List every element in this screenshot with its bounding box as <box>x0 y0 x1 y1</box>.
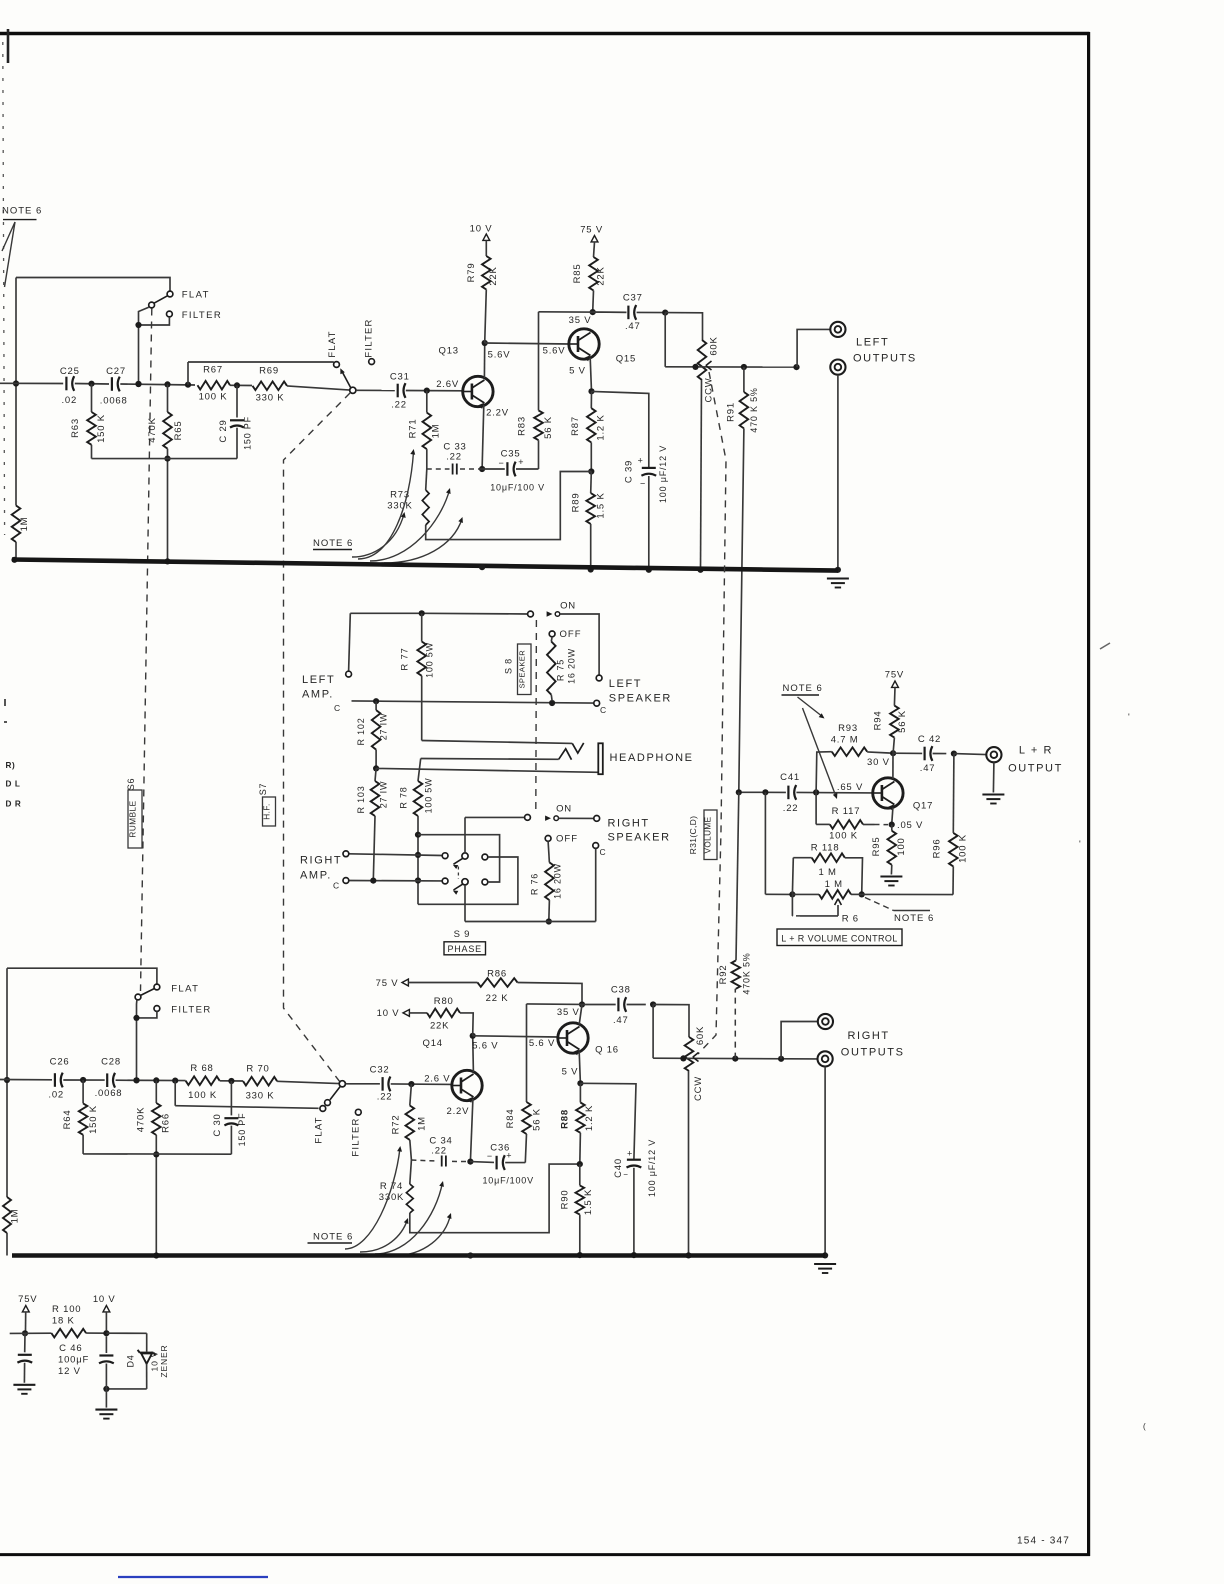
svg-text:60K: 60K <box>709 336 720 355</box>
svg-text:470K 5%: 470K 5% <box>742 952 752 994</box>
svg-text:R 70: R 70 <box>246 1064 269 1075</box>
svg-text:.65 V: .65 V <box>837 782 863 793</box>
svg-text:75V: 75V <box>885 670 904 681</box>
svg-text:R91: R91 <box>726 402 737 422</box>
svg-text:RIGHT: RIGHT <box>300 855 342 867</box>
svg-text:C37: C37 <box>623 293 643 304</box>
svg-text:100 K: 100 K <box>958 834 969 863</box>
svg-text:L + R VOLUME CONTROL: L + R VOLUME CONTROL <box>781 933 897 943</box>
svg-text:22 K: 22 K <box>486 993 509 1004</box>
svg-text:R93: R93 <box>838 723 858 734</box>
svg-text:R83: R83 <box>517 416 528 436</box>
svg-text:Q 16: Q 16 <box>595 1045 619 1056</box>
svg-text:OFF: OFF <box>556 834 578 845</box>
svg-text:FILTER: FILTER <box>350 1117 361 1156</box>
svg-text:−: − <box>498 458 504 468</box>
svg-text:.0068: .0068 <box>100 395 128 406</box>
svg-text:100: 100 <box>896 837 907 855</box>
svg-text:.0068: .0068 <box>95 1088 123 1099</box>
svg-text:.22: .22 <box>446 452 462 463</box>
svg-text:100μF: 100μF <box>58 1355 89 1366</box>
svg-text:1M: 1M <box>10 1209 21 1224</box>
svg-text:1M: 1M <box>19 517 30 532</box>
svg-text:330K: 330K <box>379 1192 404 1203</box>
svg-text:R72: R72 <box>391 1115 402 1135</box>
svg-text:R80: R80 <box>434 996 454 1007</box>
svg-text:470K: 470K <box>147 417 158 442</box>
svg-text:R94: R94 <box>873 711 884 731</box>
svg-text:1.2 K: 1.2 K <box>596 414 607 440</box>
svg-text:R96: R96 <box>932 839 943 859</box>
svg-text:RUMBLE: RUMBLE <box>129 800 138 837</box>
svg-text:AMP.: AMP. <box>300 870 332 882</box>
svg-text:R 117: R 117 <box>832 806 861 817</box>
svg-text:PHASE: PHASE <box>447 944 482 954</box>
svg-text:C27: C27 <box>106 366 126 377</box>
svg-text:35 V: 35 V <box>569 315 592 326</box>
svg-text:10 V: 10 V <box>93 1294 116 1305</box>
svg-text:OUTPUTS: OUTPUTS <box>853 353 917 365</box>
svg-text:60K: 60K <box>695 1026 706 1045</box>
svg-text:FILTER: FILTER <box>364 318 375 357</box>
svg-text:R 100: R 100 <box>52 1304 81 1315</box>
svg-text:NOTE 6: NOTE 6 <box>313 1232 353 1243</box>
svg-text:D L: D L <box>6 780 21 789</box>
svg-text:C41: C41 <box>780 772 800 783</box>
svg-text:C 39: C 39 <box>624 460 635 483</box>
svg-text:100 K: 100 K <box>829 831 858 842</box>
svg-text:C: C <box>600 847 607 857</box>
svg-text:−: − <box>623 1170 628 1179</box>
svg-text:Q17: Q17 <box>913 801 933 812</box>
svg-text:S6: S6 <box>126 778 136 791</box>
svg-text:5 V: 5 V <box>569 366 586 377</box>
svg-text:10 V: 10 V <box>149 1351 159 1372</box>
svg-text:330K: 330K <box>387 501 412 512</box>
svg-text:2.2V: 2.2V <box>447 1106 470 1117</box>
svg-text:SPEAKER: SPEAKER <box>518 650 527 689</box>
svg-text:1.5 K: 1.5 K <box>596 492 607 518</box>
svg-text:CCW: CCW <box>693 1076 704 1101</box>
svg-text:2.6V: 2.6V <box>436 379 459 390</box>
svg-text:2.2V: 2.2V <box>486 408 509 419</box>
svg-text:R 118: R 118 <box>811 843 840 854</box>
svg-text:NOTE 6: NOTE 6 <box>894 913 934 924</box>
svg-text:.47: .47 <box>920 763 936 774</box>
svg-text:75 V: 75 V <box>580 225 603 236</box>
svg-text:NOTE 6: NOTE 6 <box>783 683 823 694</box>
svg-text:AMP.: AMP. <box>302 689 334 701</box>
svg-text:150 PF: 150 PF <box>237 1113 247 1147</box>
svg-text:(: ( <box>1143 1422 1146 1431</box>
svg-text:1 M: 1 M <box>825 879 843 890</box>
svg-text:S 8: S 8 <box>504 658 514 674</box>
svg-text:R67: R67 <box>203 365 223 376</box>
svg-text:NOTE 6: NOTE 6 <box>313 538 353 549</box>
svg-text:35 V: 35 V <box>557 1007 580 1018</box>
svg-text:C: C <box>600 705 607 715</box>
svg-text:RIGHT: RIGHT <box>848 1030 890 1042</box>
svg-text:100 K: 100 K <box>188 1090 217 1101</box>
svg-text:D R: D R <box>6 800 22 809</box>
svg-text:5.6V: 5.6V <box>488 350 511 361</box>
svg-text:R 103: R 103 <box>356 785 366 813</box>
svg-text:FLAT: FLAT <box>171 984 199 995</box>
svg-text:.22: .22 <box>783 803 799 814</box>
svg-text:C32: C32 <box>370 1065 390 1076</box>
svg-text:5.6 V: 5.6 V <box>529 1038 555 1049</box>
svg-text:FLAT: FLAT <box>327 330 338 357</box>
svg-text:+: + <box>638 456 644 466</box>
svg-text:ON: ON <box>560 601 576 612</box>
svg-text:R84: R84 <box>505 1109 516 1129</box>
svg-text:56 K: 56 K <box>543 416 554 439</box>
svg-text:C 46: C 46 <box>59 1343 82 1354</box>
svg-text:10μF/100 V: 10μF/100 V <box>490 483 545 493</box>
svg-text:R66: R66 <box>161 1113 172 1133</box>
svg-text:R90: R90 <box>560 1190 571 1210</box>
svg-text:VOLUME: VOLUME <box>704 816 713 853</box>
svg-text:1.5 K: 1.5 K <box>583 1189 594 1215</box>
svg-text:C: C <box>333 881 340 891</box>
svg-text:.22: .22 <box>377 1092 393 1103</box>
svg-text:150 K: 150 K <box>96 414 107 443</box>
svg-text:Q13: Q13 <box>439 346 459 357</box>
svg-text:.47: .47 <box>625 321 641 332</box>
svg-text:150 PF: 150 PF <box>243 416 253 450</box>
svg-text:100 K: 100 K <box>199 392 228 403</box>
svg-text:Q14: Q14 <box>423 1038 443 1049</box>
svg-text:R 6: R 6 <box>842 914 859 925</box>
svg-text:FLAT: FLAT <box>182 290 210 301</box>
svg-text:22K: 22K <box>488 266 499 285</box>
svg-text:S 9: S 9 <box>454 929 471 940</box>
svg-text:FLAT: FLAT <box>314 1116 325 1143</box>
svg-text:16 20W: 16 20W <box>567 648 577 684</box>
svg-text:27 IW: 27 IW <box>379 781 389 809</box>
svg-text:C 42: C 42 <box>918 734 941 745</box>
svg-text:FILTER: FILTER <box>171 1004 211 1015</box>
svg-text:C31: C31 <box>390 372 410 383</box>
svg-text:R64: R64 <box>62 1110 73 1130</box>
svg-text:SPEAKER: SPEAKER <box>609 693 672 705</box>
svg-text:16 20W: 16 20W <box>553 863 563 899</box>
svg-text:R63: R63 <box>70 418 81 438</box>
svg-text:22K: 22K <box>596 266 607 285</box>
svg-text:SPEAKER: SPEAKER <box>608 832 671 844</box>
svg-text:5.6 V: 5.6 V <box>472 1041 498 1052</box>
svg-text:S7: S7 <box>258 783 268 796</box>
svg-text:10 V: 10 V <box>377 1008 400 1019</box>
svg-text:30 V: 30 V <box>867 757 890 768</box>
svg-text:5.6V: 5.6V <box>543 346 566 357</box>
svg-text:R71: R71 <box>408 419 419 439</box>
svg-text:75V: 75V <box>18 1294 37 1305</box>
svg-text:R 76: R 76 <box>530 873 540 895</box>
svg-text:ZENER: ZENER <box>159 1344 169 1377</box>
svg-text:RIGHT: RIGHT <box>608 818 650 830</box>
svg-text:ON: ON <box>556 804 572 815</box>
svg-text:R 77: R 77 <box>400 647 411 670</box>
svg-text:L + R: L + R <box>1019 745 1053 757</box>
svg-text:100 5W: 100 5W <box>425 642 435 678</box>
svg-text:1M: 1M <box>417 1116 428 1131</box>
svg-text:NOTE 6: NOTE 6 <box>2 206 42 217</box>
svg-text:R69: R69 <box>259 366 279 377</box>
svg-text:5 V: 5 V <box>562 1067 579 1078</box>
svg-text:56 K: 56 K <box>532 1108 543 1131</box>
svg-text:FILTER: FILTER <box>182 310 222 321</box>
svg-text:R 102: R 102 <box>356 717 366 745</box>
svg-text:C26: C26 <box>50 1057 70 1068</box>
svg-text:C40: C40 <box>613 1158 624 1178</box>
svg-text:C28: C28 <box>101 1057 121 1068</box>
svg-text:−: − <box>640 479 646 489</box>
svg-text:OUTPUTS: OUTPUTS <box>841 1047 905 1059</box>
svg-text:R 68: R 68 <box>190 1063 213 1074</box>
svg-text:': ' <box>1128 712 1131 722</box>
svg-text:1 M: 1 M <box>818 867 836 878</box>
svg-text:4.7 M: 4.7 M <box>831 735 859 746</box>
svg-text:R 78: R 78 <box>399 786 409 808</box>
svg-text:.05 V: .05 V <box>897 820 923 831</box>
svg-text:C36: C36 <box>490 1143 510 1154</box>
svg-text:470K: 470K <box>136 1107 147 1132</box>
svg-text:C 29: C 29 <box>218 419 229 442</box>
svg-text:C: C <box>334 703 341 713</box>
svg-text:18 K: 18 K <box>52 1316 75 1327</box>
svg-text:10 V: 10 V <box>470 224 493 235</box>
svg-text:LEFT: LEFT <box>609 678 642 690</box>
svg-text:OUTPUT: OUTPUT <box>1008 763 1063 775</box>
svg-text:C25: C25 <box>60 366 80 377</box>
svg-text:R87: R87 <box>570 416 581 436</box>
svg-text:H.F.: H.F. <box>263 803 272 820</box>
svg-text:75 V: 75 V <box>376 978 399 989</box>
svg-text:.02: .02 <box>61 395 77 406</box>
svg-text:330 K: 330 K <box>246 1091 275 1102</box>
svg-text:R79: R79 <box>466 263 477 283</box>
svg-text:OFF: OFF <box>560 629 582 640</box>
svg-text:10μF/100V: 10μF/100V <box>482 1176 533 1186</box>
svg-text:LEFT: LEFT <box>302 674 335 686</box>
svg-text:HEADPHONE: HEADPHONE <box>610 752 694 764</box>
svg-text:R89: R89 <box>571 493 582 513</box>
svg-text:R95: R95 <box>871 837 882 857</box>
svg-text:100 μF/12 V: 100 μF/12 V <box>647 1139 657 1197</box>
svg-text:R 75: R 75 <box>556 659 566 681</box>
svg-text:.22: .22 <box>431 1146 447 1157</box>
svg-text:22K: 22K <box>430 1021 449 1032</box>
svg-text:R31(C,D): R31(C,D) <box>688 816 698 855</box>
svg-text:100 5W: 100 5W <box>424 778 434 814</box>
svg-text:R88: R88 <box>560 1109 571 1129</box>
svg-text:R): R) <box>6 761 16 770</box>
svg-text:2.6 V: 2.6 V <box>424 1074 450 1085</box>
svg-text:1.2 K: 1.2 K <box>584 1105 595 1131</box>
svg-text:1M: 1M <box>431 424 442 439</box>
svg-text:.47: .47 <box>613 1015 629 1026</box>
svg-text:R92: R92 <box>718 965 729 985</box>
svg-text:C 30: C 30 <box>212 1113 223 1136</box>
svg-text:.02: .02 <box>48 1090 64 1101</box>
svg-text:C38: C38 <box>611 985 631 996</box>
svg-text:D4: D4 <box>125 1354 135 1367</box>
svg-text:330 K: 330 K <box>256 393 285 404</box>
svg-text:12 V: 12 V <box>58 1366 81 1377</box>
svg-text:Q15: Q15 <box>616 354 636 365</box>
svg-text:R85: R85 <box>572 264 583 284</box>
svg-text:27 IW: 27 IW <box>379 713 389 741</box>
svg-text:+: + <box>627 1149 633 1159</box>
svg-text:470 K 5%: 470 K 5% <box>749 387 759 432</box>
svg-text:150 K: 150 K <box>88 1105 99 1134</box>
svg-text:R86: R86 <box>487 969 507 980</box>
svg-text:R65: R65 <box>173 421 184 441</box>
svg-text:': ' <box>1079 839 1082 849</box>
svg-text:154 - 347: 154 - 347 <box>1017 1536 1070 1547</box>
svg-text:.22: .22 <box>391 400 407 411</box>
svg-text:C35: C35 <box>501 449 521 460</box>
svg-text:100 μF/12 V: 100 μF/12 V <box>658 445 668 503</box>
svg-text:LEFT: LEFT <box>856 337 889 349</box>
svg-text:56 K: 56 K <box>897 710 908 733</box>
